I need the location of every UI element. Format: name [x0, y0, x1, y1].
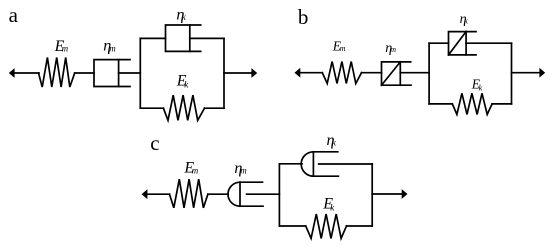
svg-text:k: k	[182, 12, 187, 22]
dashpot eta_k (a): cylinder	[166, 25, 201, 51]
dashpot eta_k (b): piston	[465, 32, 467, 55]
wire right lead (b)	[512, 72, 540, 74]
dashpot eta_m (c): rod	[247, 193, 280, 195]
spring E_m (b)	[322, 62, 361, 84]
wire left lead (c)	[147, 193, 170, 195]
dashpot eta_m (b): rod	[400, 72, 429, 74]
svg-text:k: k	[184, 80, 189, 90]
dashpot eta_m (c): bottom prong	[240, 205, 263, 207]
dashpot eta_m (b): piston	[399, 62, 401, 85]
wire spring to dashpot (c)	[208, 193, 228, 195]
node right bar (a)	[223, 38, 225, 108]
wire top branch left (a)	[140, 37, 165, 39]
wire bottom branch left (c)	[279, 225, 305, 227]
label E_m (b)	[332, 38, 346, 53]
arrow right (c)	[402, 189, 408, 199]
node right bar (c)	[371, 164, 373, 226]
svg-text:m: m	[240, 166, 247, 176]
arrow right (b)	[539, 68, 545, 78]
node left bar (b)	[428, 43, 430, 104]
svg-text:m: m	[340, 44, 346, 53]
dashpot eta_m (a): piston	[118, 60, 120, 87]
svg-text:c: c	[150, 131, 159, 155]
svg-text:m: m	[109, 43, 116, 53]
wire right lead (c)	[372, 193, 402, 195]
wire bottom branch right (a)	[205, 107, 225, 109]
dashpot eta_k (c): rod	[319, 163, 373, 165]
spring E_k (b)	[452, 93, 492, 114]
spring E_k (c)	[306, 214, 347, 238]
wire top branch left (c)	[279, 163, 302, 165]
label E_k (b)	[471, 76, 483, 92]
dashpot eta_m (c): top prong	[240, 181, 263, 183]
dashpot eta_k (c): bottom prong	[313, 175, 338, 177]
node left bar (a)	[139, 38, 141, 108]
dashpot eta_m (b): diagonal	[382, 62, 401, 85]
svg-text:m: m	[62, 43, 69, 53]
label eta_k (a)	[176, 7, 186, 24]
dashpot eta_k (b): rod	[466, 42, 511, 44]
dashpot eta_m (b): cylinder	[382, 62, 412, 85]
arrow right (a)	[251, 68, 257, 78]
label E_m (c)	[183, 160, 198, 177]
svg-text:k: k	[330, 203, 335, 213]
svg-text:m: m	[390, 45, 396, 54]
node right bar (b)	[511, 43, 513, 104]
dashpot eta_m (a): rod	[119, 72, 141, 74]
label eta_m (a)	[103, 38, 116, 55]
arrow left (a)	[9, 68, 15, 78]
svg-text:k: k	[464, 17, 468, 26]
arrow left (c)	[142, 189, 148, 199]
dashpot eta_m (c): cap arc	[228, 182, 240, 206]
wire bottom branch right (b)	[492, 103, 511, 105]
svg-text:a: a	[9, 3, 19, 27]
svg-text:k: k	[332, 137, 337, 147]
dashpot eta_k (c): top prong	[313, 151, 337, 153]
dashpot eta_k (b): diagonal	[449, 32, 467, 55]
svg-text:m: m	[192, 165, 199, 175]
dashpot eta_k (c): piston chord	[312, 152, 314, 176]
label E_k (a)	[176, 73, 189, 90]
wire spring to dashpot (a)	[75, 72, 94, 74]
dashpot eta_k (a): rod	[190, 37, 224, 39]
arrow left (b)	[295, 68, 301, 78]
node left bar (c)	[278, 164, 280, 226]
label E_k (c)	[322, 195, 335, 212]
svg-text:b: b	[298, 5, 309, 29]
wire bottom branch left (b)	[429, 103, 452, 105]
dashpot eta_k (b): cylinder	[449, 32, 477, 55]
dashpot eta_m (a): cylinder	[94, 60, 130, 87]
wire bottom branch right (c)	[347, 225, 373, 227]
wire left lead (a)	[15, 72, 40, 74]
label E_m (a)	[54, 38, 69, 55]
spring E_k (a)	[163, 95, 204, 120]
label eta_k (b)	[460, 12, 469, 27]
wire right lead (a)	[224, 72, 252, 74]
dashpot eta_k (c): cap arc	[301, 152, 313, 176]
dashpot eta_m (c): piston chord	[239, 182, 241, 206]
label eta_m (c)	[234, 160, 247, 177]
dashpot eta_k (a): piston	[189, 25, 191, 51]
label eta_k (c)	[327, 132, 337, 149]
svg-text:k: k	[479, 83, 483, 92]
wire bottom branch left (a)	[140, 107, 163, 109]
spring E_m (a)	[39, 58, 75, 88]
spring E_m (c)	[170, 179, 208, 208]
wire left lead (b)	[300, 72, 323, 74]
label eta_m (b)	[385, 41, 396, 56]
wire spring to dashpot (b)	[362, 72, 382, 74]
wire top branch left (b)	[429, 42, 448, 44]
